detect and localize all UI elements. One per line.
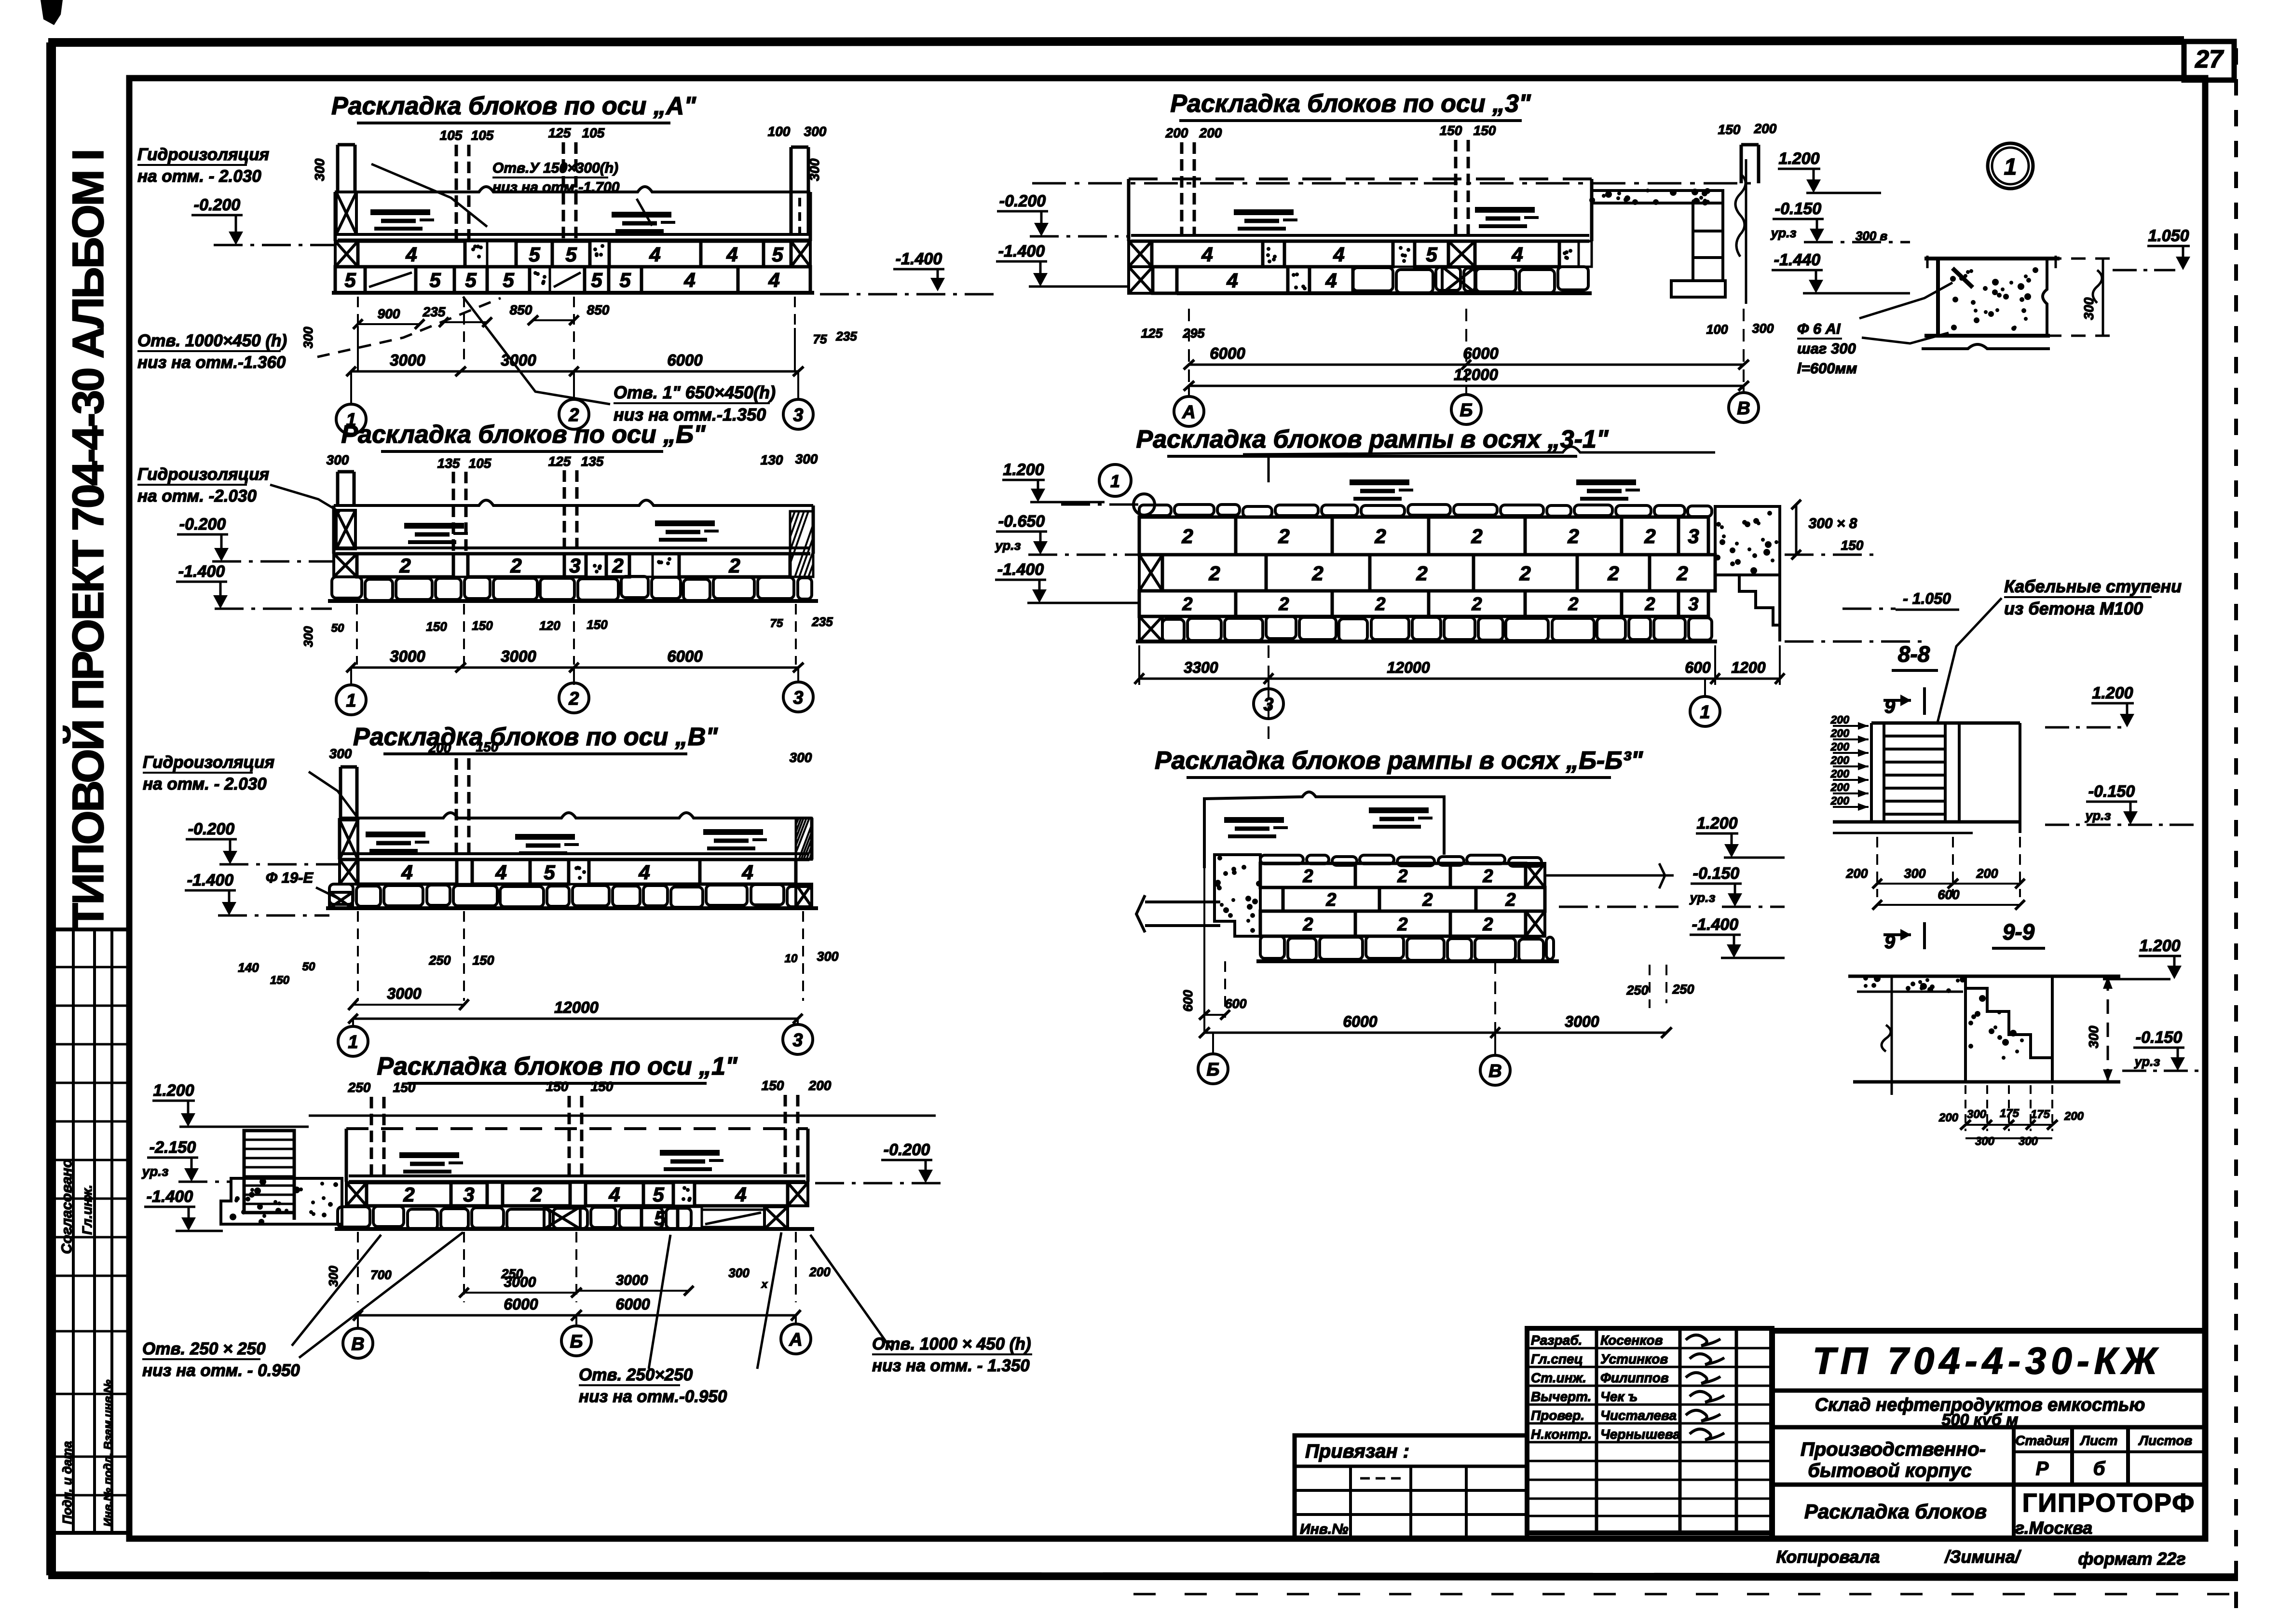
svg-text:250: 250 bbox=[1672, 982, 1694, 996]
svg-text:низ на отм. - 0.950: низ на отм. - 0.950 bbox=[142, 1361, 300, 1380]
svg-text:Раскладка блоков рампы в ос: Раскладка блоков рампы в осях „3-1" bbox=[1136, 425, 1609, 453]
svg-text:100: 100 bbox=[1706, 322, 1728, 337]
svg-text:-1.400: -1.400 bbox=[998, 242, 1045, 260]
ramp BB corner concrete block bbox=[1215, 855, 1260, 936]
concrete pad with stipple bbox=[221, 1178, 342, 1224]
svg-text:12000: 12000 bbox=[1454, 366, 1498, 383]
svg-text:ГИПРОТОРФ: ГИПРОТОРФ bbox=[2022, 1488, 2196, 1517]
top ground line with brace bbox=[1243, 447, 1715, 454]
svg-text:2: 2 bbox=[510, 554, 521, 577]
svg-text:-0.200: -0.200 bbox=[179, 515, 226, 533]
svg-text:300: 300 bbox=[2086, 1025, 2101, 1048]
svg-text:-1.440: -1.440 bbox=[1774, 251, 1820, 269]
sidebar table bbox=[52, 929, 129, 1533]
svg-text:200: 200 bbox=[1976, 866, 1998, 881]
svg-text:А: А bbox=[1182, 402, 1195, 423]
svg-text:3000: 3000 bbox=[501, 647, 536, 665]
svg-text:150: 150 bbox=[476, 739, 499, 754]
svg-text:3: 3 bbox=[1688, 594, 1698, 614]
right dims ramp 3-1 bbox=[1795, 505, 1798, 555]
dims below ramp 3-1 bbox=[1138, 645, 1140, 685]
svg-text:3: 3 bbox=[793, 688, 803, 708]
privyazan box bbox=[1295, 1435, 1527, 1539]
svg-text:27: 27 bbox=[2195, 45, 2224, 73]
svg-text:300 в: 300 в bbox=[1856, 229, 1888, 243]
svg-text:600: 600 bbox=[1938, 887, 1959, 902]
detail callout circles bbox=[1099, 464, 1131, 496]
svg-text:В: В bbox=[1488, 1061, 1501, 1081]
svg-text:1.200: 1.200 bbox=[1003, 461, 1044, 479]
svg-text:Кабельные ступени: Кабельные ступени bbox=[2004, 576, 2182, 596]
svg-text:850: 850 bbox=[510, 302, 532, 317]
dims below V bbox=[357, 911, 359, 1001]
svg-text:Копировала: Копировала bbox=[1776, 1547, 1880, 1567]
svg-text:Вычерт.: Вычерт. bbox=[1531, 1389, 1591, 1404]
svg-text:Провер.: Провер. bbox=[1531, 1408, 1584, 1423]
svg-text:2: 2 bbox=[1422, 890, 1433, 910]
svg-text:на отм. - 2.030: на отм. - 2.030 bbox=[137, 167, 261, 186]
svg-text:125: 125 bbox=[548, 125, 571, 140]
svg-text:Отв.У 150×300(h): Отв.У 150×300(h) bbox=[492, 160, 618, 176]
svg-text:2: 2 bbox=[1644, 525, 1655, 547]
svg-text:Раскладка блоков по оси „А": Раскладка блоков по оси „А" bbox=[331, 92, 696, 120]
svg-text:9-9: 9-9 bbox=[2003, 919, 2035, 944]
svg-text:150: 150 bbox=[1718, 122, 1741, 137]
svg-text:2: 2 bbox=[728, 554, 740, 577]
svg-text:Ст.инж.: Ст.инж. bbox=[1531, 1370, 1586, 1385]
svg-text:2: 2 bbox=[1278, 525, 1289, 547]
wall axis B rows bbox=[334, 554, 357, 577]
svg-text:2: 2 bbox=[1397, 914, 1407, 935]
svg-text:140: 140 bbox=[238, 960, 259, 975]
svg-text:Отв. 1000×450 (h): Отв. 1000×450 (h) bbox=[137, 331, 287, 350]
piers above wall B bbox=[452, 472, 455, 553]
detail callout circle 1 bbox=[1988, 143, 2033, 189]
svg-text:2: 2 bbox=[1208, 562, 1220, 585]
svg-text:-0.650: -0.650 bbox=[998, 512, 1045, 531]
svg-text:250: 250 bbox=[1626, 983, 1648, 997]
svg-text:Б: Б bbox=[570, 1332, 583, 1352]
svg-text:200: 200 bbox=[1830, 794, 1850, 807]
svg-text:2: 2 bbox=[1505, 890, 1515, 910]
svg-text:150: 150 bbox=[1474, 123, 1496, 138]
svg-text:200: 200 bbox=[1830, 713, 1850, 726]
svg-text:4: 4 bbox=[608, 1183, 620, 1206]
svg-text:2: 2 bbox=[1182, 594, 1192, 614]
dims below 3 bbox=[1188, 309, 1190, 386]
svg-text:5: 5 bbox=[591, 269, 602, 291]
svg-text:850: 850 bbox=[587, 302, 610, 317]
svg-text:135: 135 bbox=[437, 456, 460, 471]
svg-text:-0.200: -0.200 bbox=[188, 820, 234, 838]
svg-text:2: 2 bbox=[1519, 562, 1530, 585]
svg-text:50: 50 bbox=[331, 622, 344, 635]
svg-text:700: 700 bbox=[370, 1268, 392, 1282]
svg-text:Косенков: Косенков bbox=[1600, 1333, 1663, 1348]
svg-text:5: 5 bbox=[653, 1183, 664, 1206]
svg-text:2: 2 bbox=[1374, 525, 1386, 547]
svg-text:3: 3 bbox=[1688, 525, 1699, 547]
svg-text:4: 4 bbox=[683, 269, 695, 291]
svg-text:2: 2 bbox=[1607, 562, 1619, 585]
svg-text:Б: Б bbox=[1460, 400, 1473, 421]
svg-text:-1.400: -1.400 bbox=[187, 871, 233, 889]
wall axis 1 rows bbox=[346, 1183, 367, 1206]
svg-text:3000: 3000 bbox=[1565, 1013, 1599, 1030]
svg-text:200: 200 bbox=[1845, 866, 1868, 881]
svg-text:ур.з: ур.з bbox=[2134, 1054, 2160, 1069]
ramp BB ground outline bbox=[1204, 792, 1444, 868]
svg-text:600: 600 bbox=[1685, 659, 1711, 676]
ramp 3-1 right concrete pier bbox=[1715, 506, 1780, 575]
svg-text:В: В bbox=[1737, 398, 1750, 419]
svg-text:235: 235 bbox=[423, 304, 446, 319]
svg-text:г.Москва: г.Москва bbox=[2015, 1518, 2092, 1538]
svg-text:75: 75 bbox=[770, 617, 783, 630]
svg-text:Подп. и дата: Подп. и дата bbox=[60, 1441, 74, 1524]
svg-text:2: 2 bbox=[1482, 866, 1493, 887]
svg-text:1.200: 1.200 bbox=[2139, 937, 2180, 955]
svg-text:4: 4 bbox=[1226, 269, 1238, 292]
svg-text:150: 150 bbox=[587, 617, 608, 632]
piers above wall axis A bbox=[455, 145, 458, 239]
svg-text:3: 3 bbox=[569, 554, 580, 577]
svg-text:-0.150: -0.150 bbox=[1693, 864, 1739, 883]
svg-text:Р: Р bbox=[2036, 1458, 2049, 1479]
left spacing dims 8-8 bbox=[1833, 725, 1869, 727]
svg-text:1.200: 1.200 bbox=[1778, 150, 1819, 168]
svg-text:2: 2 bbox=[1644, 594, 1655, 614]
svg-text:2: 2 bbox=[1181, 525, 1193, 547]
svg-text:Гл.спец: Гл.спец bbox=[1531, 1351, 1583, 1366]
svg-text:235: 235 bbox=[811, 614, 833, 629]
svg-text:ур.з: ур.з bbox=[1689, 890, 1716, 905]
svg-text:5: 5 bbox=[1426, 243, 1437, 266]
svg-text:200: 200 bbox=[1830, 781, 1850, 793]
svg-text:3000: 3000 bbox=[504, 1274, 536, 1290]
svg-text:150: 150 bbox=[426, 619, 447, 634]
svg-text:200: 200 bbox=[808, 1078, 832, 1093]
svg-text:А: А bbox=[789, 1330, 802, 1350]
svg-text:ТП 704-4-30-КЖ: ТП 704-4-30-КЖ bbox=[1813, 1339, 2162, 1382]
svg-text:1: 1 bbox=[1700, 702, 1710, 723]
svg-text:300: 300 bbox=[301, 626, 315, 647]
svg-text:ур.з: ур.з bbox=[2085, 808, 2111, 823]
svg-text:3000: 3000 bbox=[616, 1272, 648, 1288]
svg-text:200: 200 bbox=[428, 740, 451, 755]
svg-text:4: 4 bbox=[768, 269, 779, 291]
svg-text:1: 1 bbox=[346, 691, 356, 711]
svg-text:300: 300 bbox=[326, 1266, 341, 1287]
svg-text:Стадия: Стадия bbox=[2015, 1433, 2069, 1448]
svg-text:120: 120 bbox=[539, 618, 560, 633]
svg-text:-2.150: -2.150 bbox=[150, 1138, 196, 1157]
svg-text:3000: 3000 bbox=[390, 351, 425, 369]
svg-text:235: 235 bbox=[835, 329, 857, 343]
svg-text:2: 2 bbox=[399, 554, 410, 577]
svg-text:50: 50 bbox=[302, 960, 315, 973]
svg-text:300: 300 bbox=[1752, 321, 1774, 336]
svg-text:3300: 3300 bbox=[1184, 659, 1218, 676]
svg-text:1200: 1200 bbox=[1731, 659, 1765, 676]
dims below BB bbox=[1203, 868, 1205, 1033]
page number box 27 bbox=[2184, 41, 2234, 80]
svg-text:75: 75 bbox=[813, 332, 827, 346]
piers above wall 3 bbox=[1180, 142, 1184, 234]
svg-text:4: 4 bbox=[726, 243, 737, 266]
svg-text:-0.200: -0.200 bbox=[884, 1141, 930, 1159]
svg-text:4: 4 bbox=[638, 861, 650, 884]
svg-text:Раскладка блоков по оси „Б": Раскладка блоков по оси „Б" bbox=[341, 421, 706, 449]
svg-text:300: 300 bbox=[795, 451, 818, 466]
svg-text:Привязан :: Привязан : bbox=[1305, 1441, 1409, 1462]
svg-text:1: 1 bbox=[348, 1032, 358, 1052]
svg-text:низ на отм.-1.700: низ на отм.-1.700 bbox=[492, 179, 620, 195]
svg-text:6000: 6000 bbox=[1210, 344, 1245, 362]
svg-text:2: 2 bbox=[1568, 594, 1578, 614]
svg-text:6000: 6000 bbox=[1463, 344, 1499, 362]
svg-text:4: 4 bbox=[649, 243, 660, 266]
svg-text:5: 5 bbox=[565, 243, 577, 266]
svg-text:130: 130 bbox=[761, 452, 783, 467]
svg-text:2: 2 bbox=[1676, 562, 1688, 585]
svg-text:на отм. -2.030: на отм. -2.030 bbox=[137, 487, 257, 505]
outer border right dashed edge bbox=[2234, 48, 2238, 1618]
concrete block detail bbox=[1924, 257, 2060, 260]
svg-text:5: 5 bbox=[772, 243, 783, 266]
svg-text:4: 4 bbox=[741, 861, 753, 884]
svg-text:105: 105 bbox=[469, 456, 491, 471]
svg-text:200: 200 bbox=[1830, 727, 1850, 739]
svg-text:Инв.№ подл. Взам.инв.№: Инв.№ подл. Взам.инв.№ bbox=[102, 1379, 115, 1527]
svg-text:4: 4 bbox=[401, 861, 412, 884]
svg-text:300: 300 bbox=[301, 327, 315, 348]
svg-text:8-8: 8-8 bbox=[1898, 641, 1930, 667]
detail dashed extension bbox=[2047, 258, 2117, 260]
svg-text:3: 3 bbox=[793, 405, 803, 425]
svg-text:3000: 3000 bbox=[390, 647, 425, 665]
svg-text:шаг 300: шаг 300 bbox=[1797, 340, 1856, 357]
svg-text:300: 300 bbox=[327, 452, 349, 467]
svg-text:2: 2 bbox=[1375, 594, 1385, 614]
svg-text:Ф 19-Е: Ф 19-Е bbox=[266, 869, 314, 886]
svg-text:600: 600 bbox=[1181, 990, 1195, 1011]
svg-text:4: 4 bbox=[1333, 243, 1344, 266]
svg-text:4: 4 bbox=[405, 243, 417, 266]
svg-text:3: 3 bbox=[1263, 695, 1273, 715]
wall axis V: ground band bbox=[340, 813, 812, 818]
svg-text:-1.400: -1.400 bbox=[1692, 915, 1738, 934]
wall axis B: ground band bbox=[334, 500, 813, 505]
svg-text:2: 2 bbox=[1278, 594, 1289, 614]
svg-text:/Зимина/: /Зимина/ bbox=[1944, 1547, 2022, 1567]
wall axis 3: ground band dashed top bbox=[1129, 177, 1592, 180]
svg-text:3: 3 bbox=[792, 1030, 803, 1051]
svg-text:135: 135 bbox=[581, 454, 604, 469]
svg-text:ур.з: ур.з bbox=[995, 538, 1021, 553]
svg-text:2: 2 bbox=[1471, 594, 1482, 614]
svg-text:300: 300 bbox=[1904, 866, 1925, 881]
svg-text:Гидроизоляция: Гидроизоляция bbox=[137, 145, 269, 164]
svg-text:-0.150: -0.150 bbox=[2136, 1028, 2182, 1047]
piers above wall 1 bbox=[370, 1097, 373, 1175]
svg-text:Отв. 250 × 250: Отв. 250 × 250 bbox=[142, 1339, 266, 1358]
svg-text:300: 300 bbox=[329, 746, 352, 761]
svg-text:300 × 8: 300 × 8 bbox=[1809, 516, 1857, 532]
dims below 9-9 bbox=[1965, 1085, 1966, 1131]
svg-text:250: 250 bbox=[348, 1080, 371, 1095]
svg-text:Ф 6 АI: Ф 6 АI bbox=[1797, 320, 1841, 337]
svg-text:-1.400: -1.400 bbox=[178, 562, 225, 581]
svg-text:1: 1 bbox=[1110, 471, 1120, 491]
svg-text:12000: 12000 bbox=[554, 998, 599, 1016]
svg-text:Гидроизоляция: Гидроизоляция bbox=[137, 465, 269, 484]
piers above wall V bbox=[455, 758, 458, 859]
svg-text:1.200: 1.200 bbox=[1696, 814, 1737, 832]
svg-text:12000: 12000 bbox=[1387, 659, 1430, 676]
svg-text:200: 200 bbox=[1830, 754, 1850, 766]
svg-text:4: 4 bbox=[1201, 243, 1213, 266]
svg-text:2: 2 bbox=[1416, 562, 1427, 585]
svg-text:1: 1 bbox=[2004, 154, 2017, 180]
axis circles A bbox=[350, 371, 352, 404]
svg-text:Согласовано: Согласовано bbox=[59, 1159, 75, 1254]
svg-text:Чек ъ: Чек ъ bbox=[1600, 1389, 1638, 1404]
svg-text:200: 200 bbox=[2064, 1110, 2084, 1123]
svg-text:Раскладка блоков по оси „1": Раскладка блоков по оси „1" bbox=[377, 1052, 738, 1080]
svg-text:формат 22г: формат 22г bbox=[2078, 1549, 2185, 1569]
svg-text:500 куб м: 500 куб м bbox=[1942, 1411, 2019, 1429]
ramp 3-1 wall rows bbox=[1139, 505, 1171, 516]
dimensions below axis A bbox=[357, 297, 359, 363]
svg-text:2: 2 bbox=[1482, 914, 1493, 935]
scan blob top-left corner bbox=[41, 0, 63, 25]
svg-text:Отв. 1" 650×450(h): Отв. 1" 650×450(h) bbox=[614, 382, 776, 402]
svg-text:10: 10 bbox=[785, 952, 798, 965]
staircase left bbox=[244, 1131, 294, 1213]
svg-text:250: 250 bbox=[428, 953, 450, 968]
svg-text:5: 5 bbox=[619, 269, 631, 291]
svg-text:Чисталева: Чисталева bbox=[1600, 1408, 1677, 1423]
svg-text:300: 300 bbox=[1967, 1108, 1987, 1121]
elevations right of BB bbox=[1545, 874, 1674, 877]
svg-text:2: 2 bbox=[1471, 525, 1482, 547]
wall axis A: block rows bbox=[335, 241, 358, 267]
svg-text:300: 300 bbox=[2019, 1135, 2038, 1148]
svg-text:Филиппов: Филиппов bbox=[1600, 1370, 1669, 1385]
svg-text:низ на отм.-0.950: низ на отм.-0.950 bbox=[579, 1387, 727, 1406]
svg-text:2: 2 bbox=[1567, 525, 1579, 547]
svg-text:2: 2 bbox=[1311, 562, 1323, 585]
svg-text:ур.з: ур.з bbox=[1770, 226, 1797, 240]
svg-text:600: 600 bbox=[1225, 996, 1246, 1011]
svg-text:-0.200: -0.200 bbox=[999, 192, 1046, 210]
svg-text:Лист: Лист bbox=[2080, 1433, 2118, 1448]
svg-text:Гл.инж.: Гл.инж. bbox=[80, 1185, 95, 1235]
svg-text:ур.з: ур.з bbox=[141, 1164, 169, 1179]
svg-text:105: 105 bbox=[471, 128, 494, 143]
dims below B bbox=[356, 604, 358, 665]
svg-text:низ на отм. - 1.350: низ на отм. - 1.350 bbox=[872, 1356, 1030, 1375]
svg-text:-0.200: -0.200 bbox=[194, 196, 240, 214]
svg-text:150: 150 bbox=[393, 1080, 416, 1095]
ramp BB wall rows bbox=[1260, 855, 1303, 864]
svg-text:2: 2 bbox=[403, 1183, 414, 1206]
svg-text:Отв. 250×250: Отв. 250×250 bbox=[579, 1365, 693, 1384]
row2: left blocks, right rubble bbox=[1129, 267, 1153, 293]
svg-text:-1.400: -1.400 bbox=[896, 250, 942, 268]
svg-text:Раскладка блоков по оси „3": Раскладка блоков по оси „3" bbox=[1170, 90, 1531, 118]
svg-text:Производственно-: Производственно- bbox=[1801, 1439, 1986, 1460]
svg-text:6000: 6000 bbox=[667, 647, 703, 665]
wall axis 3 rows bbox=[1129, 241, 1152, 267]
svg-text:200: 200 bbox=[1199, 125, 1222, 140]
svg-text:150: 150 bbox=[762, 1078, 784, 1093]
svg-text:300: 300 bbox=[817, 949, 838, 964]
svg-text:3000: 3000 bbox=[387, 985, 421, 1002]
svg-text:200: 200 bbox=[809, 1265, 831, 1279]
elevations right of 3 bbox=[1745, 159, 1747, 304]
svg-text:300: 300 bbox=[807, 158, 822, 181]
svg-text:1.200: 1.200 bbox=[2092, 684, 2133, 702]
svg-text:300: 300 bbox=[312, 158, 327, 181]
svg-text:5: 5 bbox=[654, 1207, 666, 1229]
wall axis V rows bbox=[340, 860, 358, 884]
svg-text:3: 3 bbox=[463, 1183, 474, 1206]
svg-text:105: 105 bbox=[440, 128, 463, 143]
svg-text:150: 150 bbox=[1841, 538, 1864, 553]
wall axis 1: ground band bbox=[309, 1115, 936, 1117]
portal ramp right of 3 bbox=[1592, 191, 1723, 203]
svg-text:200: 200 bbox=[1938, 1111, 1959, 1124]
svg-text:-1.400: -1.400 bbox=[997, 560, 1044, 579]
svg-text:200: 200 bbox=[1830, 740, 1850, 753]
svg-text:6000: 6000 bbox=[504, 1296, 538, 1313]
svg-text:х: х bbox=[761, 1278, 768, 1290]
svg-text:5: 5 bbox=[529, 243, 540, 266]
svg-text:-0.150: -0.150 bbox=[1775, 200, 1821, 218]
svg-text:Н.контр.: Н.контр. bbox=[1531, 1427, 1592, 1442]
svg-text:125: 125 bbox=[1141, 326, 1163, 341]
svg-text:-0.150: -0.150 bbox=[2088, 782, 2135, 801]
svg-text:2: 2 bbox=[1325, 890, 1336, 910]
svg-text:3000: 3000 bbox=[501, 351, 536, 369]
svg-text:-1.400: -1.400 bbox=[147, 1187, 193, 1206]
svg-text:Раскладка блоков рампы в ос: Раскладка блоков рампы в осях „Б-Б³" bbox=[1155, 747, 1643, 775]
svg-text:Инв.№: Инв.№ bbox=[1300, 1521, 1349, 1537]
svg-text:Отв. 1000 × 450 (h): Отв. 1000 × 450 (h) bbox=[872, 1335, 1031, 1353]
steps 9-9 bbox=[1965, 988, 2052, 1081]
svg-text:175: 175 bbox=[2000, 1107, 2020, 1120]
svg-text:б: б bbox=[2093, 1458, 2106, 1479]
svg-text:2: 2 bbox=[530, 1183, 542, 1206]
svg-text:300: 300 bbox=[728, 1266, 750, 1280]
svg-text:125: 125 bbox=[548, 454, 571, 469]
svg-text:6000: 6000 bbox=[667, 351, 703, 369]
leaders cross bbox=[292, 1235, 381, 1346]
svg-text:5: 5 bbox=[544, 861, 555, 884]
ladder 8-8 bbox=[1871, 722, 2020, 725]
svg-text:200: 200 bbox=[1830, 767, 1850, 780]
svg-text:4: 4 bbox=[735, 1183, 746, 1206]
svg-text:200: 200 bbox=[1754, 121, 1777, 136]
svg-text:Б: Б bbox=[1207, 1060, 1220, 1080]
svg-text:Листов: Листов bbox=[2138, 1433, 2193, 1448]
svg-text:300: 300 bbox=[790, 750, 812, 765]
svg-text:Устинков: Устинков bbox=[1600, 1351, 1668, 1366]
svg-text:2: 2 bbox=[1302, 866, 1313, 887]
svg-text:100: 100 bbox=[768, 124, 791, 139]
